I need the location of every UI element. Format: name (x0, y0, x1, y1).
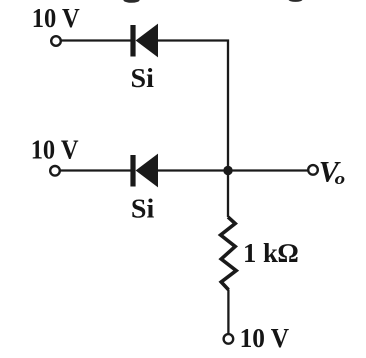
svg-text:10 V: 10 V (31, 134, 79, 164)
svg-text:10 V: 10 V (240, 323, 290, 353)
svg-text:1 kΩ: 1 kΩ (243, 238, 298, 268)
svg-text:o: o (335, 169, 346, 188)
svg-text:Si: Si (131, 63, 155, 93)
svg-text:10 V: 10 V (32, 3, 80, 33)
svg-text:Si: Si (131, 194, 155, 224)
